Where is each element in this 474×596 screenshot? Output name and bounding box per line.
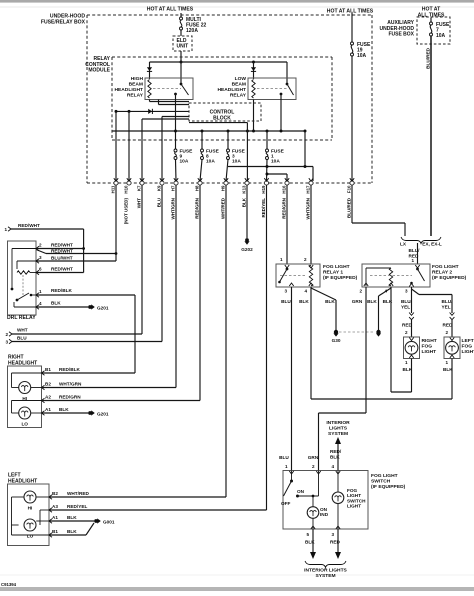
- svg-text:1: 1: [39, 289, 42, 294]
- right headlight LO bulb: [19, 407, 31, 427]
- label CONTROL BLOCK: [210, 110, 235, 122]
- wire RED/GRN H16 to fog relay 1 pin 1: [280, 185, 287, 264]
- svg-text:RED/WHT: RED/WHT: [51, 248, 73, 253]
- svg-text:2: 2: [312, 464, 315, 469]
- svg-text:G001: G001: [103, 520, 115, 525]
- wire RED/WHT header to DRL pins 2 and 6: [4, 223, 85, 273]
- svg-text:IND: IND: [320, 512, 329, 517]
- pin H19: [261, 178, 269, 217]
- svg-text:BLK: BLK: [67, 529, 77, 534]
- svg-text:HEADLIGHT: HEADLIGHT: [114, 87, 143, 93]
- svg-text:FOG LIGHT: FOG LIGHT: [323, 264, 350, 270]
- svg-text:2: 2: [304, 257, 307, 262]
- svg-text:HI: HI: [22, 396, 27, 401]
- wire RED/BLK DRL pin 1 to right headlight B1: [36, 288, 135, 373]
- svg-text:FUSE BOX: FUSE BOX: [388, 32, 414, 38]
- svg-text:LIGHT: LIGHT: [347, 504, 361, 509]
- wire high relay aux to control block: [159, 100, 190, 105]
- svg-text:3: 3: [331, 532, 334, 537]
- svg-text:RELAY: RELAY: [230, 93, 247, 99]
- svg-text:INTERIOR LIGHTS: INTERIOR LIGHTS: [304, 568, 347, 574]
- ground G201 (right headlight): [88, 410, 109, 416]
- left headlight: [8, 484, 53, 546]
- wire BLK fog relay 1 pin 4 down: [299, 287, 311, 399]
- fuse 9 10A: [174, 149, 193, 165]
- wire K7 to control block: [142, 118, 189, 120]
- wire BLU/RED to fog relay 2 pin 1: [409, 243, 421, 264]
- svg-text:B2: B2: [52, 491, 58, 496]
- label FOG LIGHT SWITCH (IF EQUIPPED): [371, 473, 406, 490]
- svg-text:WHT/RED: WHT/RED: [67, 491, 89, 496]
- wire RED/GRN H8 to right headlight A2: [42, 185, 200, 401]
- svg-text:EX, EX-L: EX, EX-L: [422, 242, 442, 247]
- svg-text:H10: H10: [124, 185, 129, 194]
- svg-text:WHT/RED: WHT/RED: [221, 197, 226, 219]
- page bottom gray bar: [0, 575, 474, 591]
- svg-text:2: 2: [359, 289, 362, 294]
- svg-text:RED/GRN: RED/GRN: [282, 198, 287, 219]
- svg-text:GRN: GRN: [352, 299, 363, 304]
- connector row dashed line: [87, 182, 372, 184]
- wire WHT K7 to pin 2: [5, 185, 142, 337]
- svg-text:LO: LO: [21, 422, 28, 427]
- svg-text:HI: HI: [28, 506, 33, 511]
- svg-text:LIGHT: LIGHT: [462, 349, 474, 355]
- wire BLU fog relay 1 pin 3 to fog switch: [279, 287, 291, 470]
- label RIGHT FOG LIGHT: [422, 338, 437, 355]
- wire BLK DRL pin 4 to ground: [36, 301, 88, 308]
- svg-text:K13: K13: [242, 185, 247, 194]
- svg-text:1: 1: [405, 360, 408, 365]
- wire branch to pin H17: [228, 131, 313, 181]
- wire hot to fuse 19: [351, 13, 353, 42]
- wire fuse 3 feed: [227, 131, 229, 149]
- svg-text:10A: 10A: [206, 159, 215, 165]
- wire fuse 1 feed: [266, 131, 268, 149]
- wire high relay output to fuse 9: [175, 94, 177, 149]
- label RELAY CONTROL MODULE: [85, 56, 110, 74]
- svg-text:WHT/GRN: WHT/GRN: [306, 198, 311, 220]
- diode line H11-H10 to control block: [115, 109, 190, 114]
- fuse 3 10A: [227, 149, 246, 165]
- arrow from interior lights system: [335, 437, 341, 470]
- trim split wires LX / EX: [352, 185, 407, 247]
- svg-text:1: 1: [4, 227, 7, 232]
- wire GRN fog relay 2 pin 2 to fog switch: [308, 287, 366, 470]
- svg-text:RED/GRN: RED/GRN: [195, 198, 200, 219]
- svg-text:10A: 10A: [180, 159, 189, 165]
- fuse 1 10A: [266, 149, 285, 165]
- DRL pin numbers: [39, 243, 42, 307]
- svg-text:BLU: BLU: [17, 335, 27, 340]
- svg-text:RED: RED: [443, 323, 454, 328]
- svg-text:BLK: BLK: [59, 407, 69, 412]
- svg-text:BLU/RED: BLU/RED: [426, 47, 431, 68]
- auxiliary under-hood fuse box (dashed): [417, 17, 450, 44]
- svg-text:G201: G201: [97, 412, 109, 417]
- wire branch to pin H16: [266, 173, 288, 182]
- svg-text:5: 5: [306, 532, 309, 537]
- svg-text:RED/WHT: RED/WHT: [51, 243, 73, 248]
- wire BLK fog relay 2 to ground: [367, 288, 391, 330]
- svg-text:H19: H19: [261, 185, 266, 194]
- svg-text:RED/BLK: RED/BLK: [59, 367, 80, 372]
- svg-text:3: 3: [284, 289, 287, 294]
- wire fuse1 to pin H19: [266, 160, 269, 182]
- wire BLK left headlight B1 joins ground: [50, 523, 95, 535]
- pin H11: [111, 178, 119, 193]
- svg-text:ON: ON: [297, 489, 305, 494]
- wire BLK right headlight A1 to ground: [42, 407, 88, 413]
- label LEFT HEADLIGHT: [8, 473, 37, 485]
- svg-text:H8: H8: [195, 185, 200, 191]
- svg-text:BLOCK: BLOCK: [213, 115, 231, 121]
- svg-text:4: 4: [39, 301, 42, 306]
- low beam headlight relay K2: [248, 78, 296, 100]
- svg-text:BLK: BLK: [403, 367, 413, 372]
- svg-text:UNIT: UNIT: [177, 44, 189, 50]
- svg-text:2: 2: [39, 243, 42, 248]
- label RIGHT HEADLIGHT: [8, 355, 37, 367]
- svg-text:RED/BLK: RED/BLK: [51, 288, 72, 293]
- svg-text:RED/WHT: RED/WHT: [18, 223, 40, 228]
- svg-text:GRN: GRN: [308, 455, 319, 460]
- svg-text:FOG LIGHT: FOG LIGHT: [371, 473, 398, 479]
- wire low relay output: [280, 94, 282, 131]
- svg-text:A3: A3: [52, 504, 58, 509]
- svg-text:RED/: RED/: [330, 449, 342, 454]
- svg-text:BLU: BLU: [281, 299, 291, 304]
- svg-text:BLU: BLU: [279, 455, 289, 460]
- label INTERIOR LIGHTS SYSTEM (top): [326, 420, 350, 437]
- pin F10: [347, 178, 355, 218]
- label LOW BEAM HEADLIGHT RELAY: [217, 76, 246, 99]
- svg-text:B1: B1: [52, 529, 58, 534]
- svg-text:K9: K9: [157, 185, 162, 191]
- svg-text:FUSE/RELAY BOX: FUSE/RELAY BOX: [41, 19, 86, 25]
- wire BLK fog relay 2 pin 4 down: [383, 287, 393, 392]
- high beam headlight relay K1: [145, 78, 193, 100]
- under-hood fuse/relay box (dashed): [87, 15, 372, 183]
- fuse 19 10A: [351, 42, 372, 59]
- svg-text:LEFT: LEFT: [462, 338, 474, 344]
- wire pin H11 up: [115, 111, 117, 181]
- svg-text:BLU/: BLU/: [409, 248, 421, 253]
- wire BLU K9 to pin 3: [5, 185, 162, 345]
- svg-text:RED/YEL: RED/YEL: [261, 198, 266, 218]
- wire WHT/RED H9 to left headlight B2: [50, 185, 227, 497]
- svg-text:LOW: LOW: [235, 76, 247, 82]
- svg-text:FOG LIGHT: FOG LIGHT: [432, 264, 459, 270]
- svg-text:BLU/: BLU/: [401, 299, 413, 304]
- svg-text:K7: K7: [137, 185, 142, 191]
- pin K9: [157, 178, 165, 207]
- svg-text:1: 1: [411, 258, 414, 263]
- wire K13 to control block: [189, 122, 247, 124]
- fog switch ON contact wire: [298, 471, 319, 498]
- svg-text:(IF EQUIPPED): (IF EQUIPPED): [323, 275, 358, 281]
- svg-text:G201: G201: [97, 306, 109, 311]
- svg-text:WHT: WHT: [17, 328, 28, 333]
- wire fuse8 to pin H8: [200, 160, 202, 182]
- label LEFT FOG LIGHT: [462, 338, 474, 355]
- pin H7: [171, 178, 179, 219]
- wire to high beam relay switch: [180, 62, 182, 84]
- wire to low beam relay switch: [286, 62, 288, 84]
- left headlight pin labels: [52, 491, 58, 534]
- svg-text:HIGH: HIGH: [131, 76, 144, 82]
- wire fuse 19 to pin F10: [351, 56, 353, 181]
- svg-text:A1: A1: [52, 515, 58, 520]
- ground point fog relay 2: [376, 330, 381, 337]
- svg-text:WHT/GRN: WHT/GRN: [171, 198, 176, 220]
- svg-text:B1: B1: [45, 367, 51, 372]
- wire WHT/GRN H17 to fog relay 1 pin 2: [304, 185, 311, 264]
- wire BLK right fog light: [391, 359, 413, 393]
- svg-text:RIGHT: RIGHT: [422, 338, 437, 344]
- left headlight LO bulb: [24, 519, 36, 539]
- svg-text:HOT AT ALL TIMES: HOT AT ALL TIMES: [327, 9, 374, 15]
- wire + diode to low beam relay coil: [251, 62, 256, 79]
- fog light switch light bulb: [332, 471, 366, 530]
- ON indicator bulb: [307, 496, 328, 529]
- svg-text:LIGHT: LIGHT: [422, 349, 437, 355]
- page top gray bar: [0, 0, 474, 7]
- label HOT AT ALL TIMES (right): [418, 7, 445, 19]
- pin H9: [221, 178, 229, 219]
- control block (dashed): [189, 103, 261, 121]
- svg-text:LIGHTS: LIGHTS: [329, 426, 348, 432]
- fog light relay 1: [276, 264, 320, 287]
- svg-text:WHT/GRN: WHT/GRN: [59, 382, 82, 387]
- label AUXILIARY UNDER-HOOD FUSE BOX: [380, 20, 415, 38]
- svg-text:SYSTEM: SYSTEM: [328, 431, 348, 437]
- svg-text:2: 2: [405, 330, 408, 335]
- connector right fog: [409, 313, 414, 320]
- svg-text:1: 1: [445, 360, 448, 365]
- wire BLK left headlight A1 to ground: [50, 515, 95, 521]
- label UNDER-HOOD FUSE/RELAY BOX: [41, 14, 86, 26]
- svg-text:3: 3: [5, 340, 8, 345]
- wire pin K13 up: [246, 123, 248, 181]
- svg-text:HEADLIGHT: HEADLIGHT: [8, 360, 37, 366]
- right headlight pin labels: [45, 367, 51, 412]
- wire BLK K13 to ground: [246, 185, 248, 238]
- svg-text:G30: G30: [332, 338, 341, 343]
- DRL relay: [8, 241, 40, 315]
- svg-text:10A: 10A: [271, 159, 280, 165]
- svg-text:RELAY 1: RELAY 1: [323, 270, 343, 276]
- svg-text:BLK: BLK: [325, 299, 335, 304]
- wire WHT/GRN H7 to right headlight B2: [42, 185, 176, 388]
- multi fuse 22 120A: [180, 17, 207, 34]
- svg-text:RED/WHT: RED/WHT: [51, 267, 73, 272]
- connector left fog: [450, 313, 455, 320]
- svg-text:BLK: BLK: [242, 197, 247, 207]
- ground G202: [241, 238, 253, 252]
- wire K9 to control block: [162, 116, 189, 118]
- svg-text:4: 4: [304, 289, 307, 294]
- svg-text:RELAY: RELAY: [127, 93, 144, 99]
- svg-text:(NOT USED): (NOT USED): [124, 198, 129, 225]
- svg-text:SYSTEM: SYSTEM: [315, 573, 335, 579]
- svg-text:MODULE: MODULE: [88, 68, 110, 74]
- svg-text:SWITCH: SWITCH: [371, 479, 391, 485]
- label HIGH BEAM HEADLIGHT RELAY: [114, 76, 143, 99]
- bus wire relay feeds: [150, 61, 288, 64]
- svg-text:A1: A1: [45, 407, 51, 412]
- pin K13: [242, 178, 250, 207]
- svg-text:DRL RELAY: DRL RELAY: [7, 315, 36, 321]
- svg-text:BEAM: BEAM: [129, 82, 143, 88]
- wire pin K9 up: [161, 117, 163, 182]
- wire RED/YEL H19 to left headlight A3: [50, 185, 267, 510]
- right fog light: [404, 337, 420, 359]
- label FOG LIGHT RELAY 2 (IF EQUIPPED): [432, 264, 467, 281]
- svg-text:3: 3: [405, 289, 408, 294]
- wire fuse9 to pin H7: [175, 160, 178, 182]
- svg-text:LX: LX: [400, 242, 407, 247]
- fog relay 1 bottom pin numbers: [284, 289, 307, 294]
- svg-text:C91394: C91394: [1, 582, 17, 587]
- wire + diode to high beam relay coil: [147, 62, 152, 79]
- svg-text:RELAY 2: RELAY 2: [432, 270, 452, 276]
- svg-text:6: 6: [39, 267, 42, 272]
- svg-text:H7: H7: [171, 185, 176, 191]
- svg-text:BLK: BLK: [330, 454, 340, 459]
- fog switch lever: [281, 471, 305, 507]
- pin H17: [306, 178, 314, 219]
- svg-text:WHT: WHT: [137, 198, 142, 208]
- wire BLK left fog light: [311, 359, 453, 400]
- svg-text:BLU/: BLU/: [442, 299, 454, 304]
- svg-text:HEADLIGHT: HEADLIGHT: [217, 87, 246, 93]
- svg-text:HEADLIGHT: HEADLIGHT: [8, 478, 37, 484]
- svg-text:BLK: BLK: [305, 540, 315, 545]
- pin H10: [124, 178, 132, 224]
- right headlight: [8, 366, 45, 428]
- ground G201 (DRL): [88, 304, 109, 310]
- wire RED/WHT DRL pin 2: [36, 243, 84, 249]
- pin H16: [282, 178, 290, 219]
- svg-text:YEL: YEL: [442, 304, 451, 309]
- wire RED/WHT DRL pin 6: [36, 267, 84, 273]
- svg-text:10A: 10A: [232, 159, 241, 165]
- fuse 7 10A: [430, 22, 451, 39]
- wire fuse 8 feed: [201, 131, 203, 149]
- wire low relay coil return: [253, 100, 255, 132]
- wire BLU/RED from fuse 7: [426, 36, 431, 236]
- label DRL RELAY: [7, 315, 36, 321]
- wire BLU/WHT DRL pin 3: [36, 255, 116, 261]
- svg-text:1: 1: [285, 464, 288, 469]
- ground G001 (left headlight): [94, 518, 115, 524]
- figure code C91394: [1, 582, 17, 587]
- wire pin K7 up: [141, 119, 143, 181]
- wire BLU/YEL branch to left fog light: [412, 289, 454, 313]
- svg-text:RED/YEL: RED/YEL: [67, 504, 87, 509]
- svg-text:YEL: YEL: [401, 304, 410, 309]
- svg-text:BLK: BLK: [67, 515, 77, 520]
- svg-text:H11: H11: [111, 185, 116, 193]
- svg-text:BEAM: BEAM: [232, 82, 246, 88]
- svg-text:BLK: BLK: [367, 299, 377, 304]
- wire multi fuse to ELD: [180, 30, 182, 36]
- svg-text:BLK: BLK: [51, 301, 61, 306]
- svg-text:A2: A2: [45, 395, 51, 400]
- svg-text:RED: RED: [330, 540, 341, 545]
- right headlight HI bulb: [19, 382, 31, 402]
- svg-text:H9: H9: [221, 185, 226, 191]
- fog relay 2 bottom pin numbers: [359, 289, 408, 294]
- wire RED to left fog light: [443, 320, 454, 337]
- wire high relay coil return to control block: [150, 100, 190, 102]
- svg-text:B2: B2: [45, 382, 51, 387]
- svg-text:RED: RED: [409, 253, 420, 258]
- wire fuse3 to pin H9: [226, 160, 228, 182]
- label INTERIOR LIGHTS SYSTEM (bottom): [304, 568, 347, 580]
- svg-text:1: 1: [280, 257, 283, 262]
- ground tie dashed: [339, 331, 375, 333]
- svg-text:INTERIOR: INTERIOR: [326, 420, 350, 426]
- svg-text:(IF EQUIPPED): (IF EQUIPPED): [371, 484, 406, 490]
- label EX, EX-L: [422, 242, 442, 247]
- wire RED to right fog light: [402, 320, 413, 337]
- label RED/BLK: [330, 449, 342, 469]
- svg-text:G202: G202: [241, 247, 253, 252]
- svg-text:RED/GRN: RED/GRN: [59, 395, 81, 400]
- svg-text:(IF EQUIPPED): (IF EQUIPPED): [432, 275, 467, 281]
- svg-text:FOG: FOG: [462, 344, 473, 350]
- fuse 8 10A: [201, 149, 220, 165]
- ELD unit (dashed box): [173, 36, 192, 51]
- svg-text:10A: 10A: [436, 33, 446, 39]
- brace interior lights (bottom): [305, 561, 346, 568]
- wire RED fog switch pin 3: [330, 529, 341, 559]
- svg-text:BLK: BLK: [383, 299, 393, 304]
- svg-text:H17: H17: [306, 185, 311, 194]
- left headlight HI bulb: [24, 491, 36, 511]
- label FOG LIGHT RELAY 1 (IF EQUIPPED): [323, 264, 358, 281]
- svg-text:3: 3: [39, 255, 42, 260]
- svg-text:RED: RED: [402, 323, 413, 328]
- svg-text:OFF: OFF: [281, 501, 291, 506]
- fog light relay 2: [362, 264, 430, 287]
- wire BLK fog switch pin 5: [305, 529, 316, 559]
- svg-text:2: 2: [5, 332, 8, 337]
- wire hot feed to multi fuse: [180, 13, 182, 17]
- fog light switch (IF EQUIPPED): [283, 471, 368, 530]
- svg-text:LO: LO: [27, 534, 34, 539]
- svg-text:120A: 120A: [186, 28, 198, 34]
- svg-text:BLU/RED: BLU/RED: [347, 197, 352, 218]
- relay control module (dashed): [112, 57, 332, 140]
- wire ELD to relay bus: [180, 51, 183, 64]
- ground G30: [332, 330, 341, 343]
- svg-text:HOT AT ALL TIMES: HOT AT ALL TIMES: [147, 7, 194, 13]
- pin H8: [195, 178, 203, 219]
- svg-text:BLK: BLK: [299, 299, 309, 304]
- svg-text:BLK: BLK: [443, 367, 453, 372]
- svg-text:BLU: BLU: [157, 198, 162, 207]
- wire hot to fuse 7: [430, 18, 432, 23]
- wire pin H10 up: [128, 111, 130, 181]
- svg-text:2: 2: [445, 330, 448, 335]
- svg-text:10A: 10A: [357, 53, 367, 59]
- svg-text:4: 4: [331, 464, 334, 469]
- brace trim merge: [401, 237, 441, 244]
- wire BLK fog relay 1 to ground G30: [311, 288, 336, 330]
